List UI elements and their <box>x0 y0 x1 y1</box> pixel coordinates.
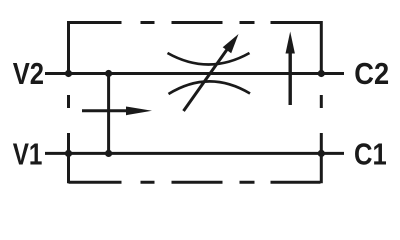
flow arrow up shaft <box>289 51 292 105</box>
wire V1 to C1 <box>45 152 344 155</box>
enclosure dashed box left edge <box>67 21 70 183</box>
svg-text:V1: V1 <box>13 136 43 171</box>
junction dot C1 at enclosure <box>318 150 325 157</box>
junction dot V2 at branch <box>105 70 112 77</box>
enclosure dashed box right edge <box>320 21 323 183</box>
junction dot V1 at branch <box>105 150 112 157</box>
flow arrow right head <box>126 107 152 116</box>
enclosure dashed box bottom edge <box>69 181 322 184</box>
svg-text:C2: C2 <box>354 56 389 91</box>
junction dot V1 at enclosure <box>65 150 72 157</box>
svg-text:C1: C1 <box>354 136 387 171</box>
flow control valve lower arc <box>169 81 251 94</box>
junction dot C2 at enclosure <box>318 70 325 77</box>
wire V2 to C2 <box>45 72 344 75</box>
adjustability arrow shaft <box>184 46 230 111</box>
flow arrow up head <box>286 32 295 54</box>
flow arrow right shaft <box>82 109 130 112</box>
svg-text:V2: V2 <box>13 56 44 91</box>
junction dot V2 at enclosure <box>65 70 72 77</box>
flow control valve upper arc <box>168 53 250 65</box>
adjustability arrow head <box>223 34 239 53</box>
enclosure dashed box top edge <box>69 21 322 24</box>
wire branch between lines <box>107 74 110 154</box>
